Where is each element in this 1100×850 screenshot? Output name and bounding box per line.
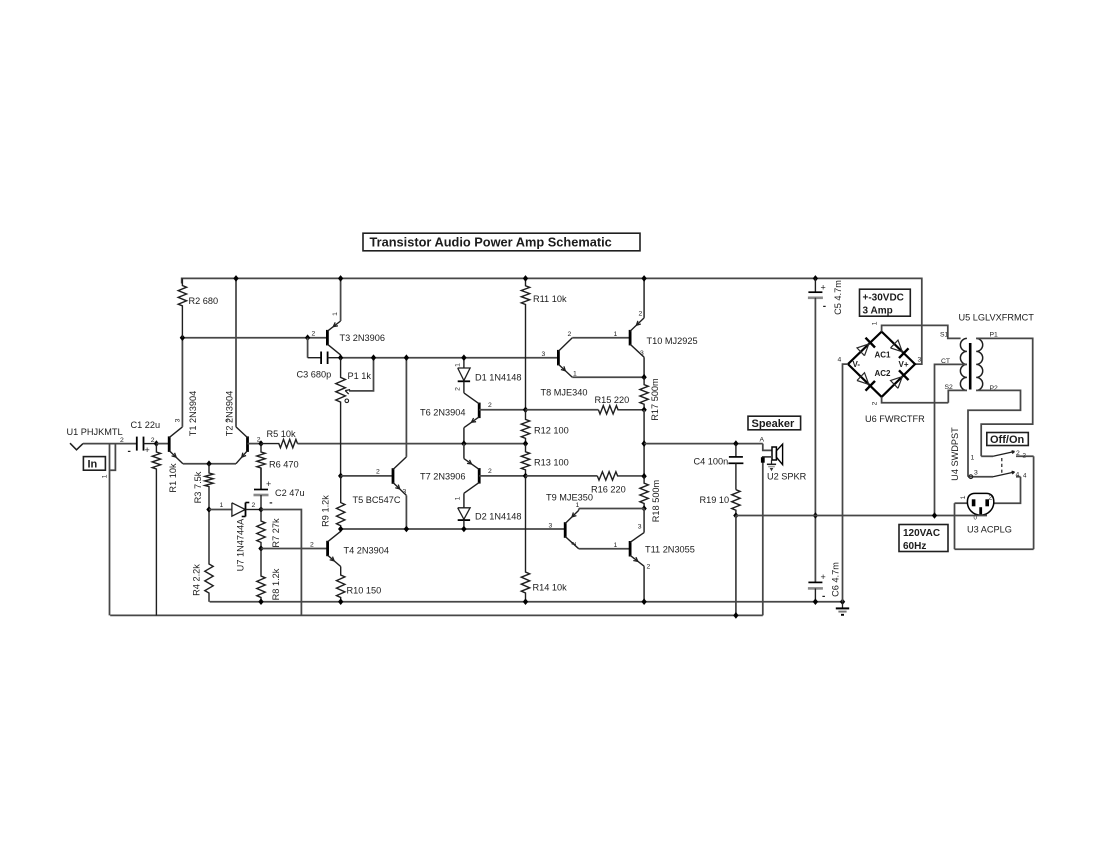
resistor R12 100 <box>521 410 529 444</box>
node T3 collector / C3 / P1 junction <box>338 354 343 361</box>
svg-text:4: 4 <box>1016 472 1020 479</box>
svg-text:R7 27k: R7 27k <box>271 518 281 548</box>
transistor T10 MJ2925 <box>629 330 632 346</box>
wire output column <box>643 410 645 476</box>
svg-text:R10 150: R10 150 <box>347 586 382 596</box>
svg-text:+: + <box>266 479 271 489</box>
resistor R13 100 <box>521 444 529 476</box>
svg-text:1: 1 <box>614 542 618 549</box>
svg-text:-: - <box>822 591 825 602</box>
zener diode U7 1N4744A <box>232 503 245 516</box>
label Off/On box <box>987 433 1029 446</box>
node CT at ground line <box>932 512 937 519</box>
node T2 collector at rail <box>233 275 238 282</box>
svg-text:U6 FWRCTFR: U6 FWRCTFR <box>865 414 925 424</box>
svg-text:Transistor Audio Power Amp Sch: Transistor Audio Power Amp Schematic <box>370 235 612 250</box>
svg-text:+: + <box>821 572 826 582</box>
svg-text:R4 2.2k: R4 2.2k <box>192 564 202 596</box>
node C5 at +rail <box>813 275 818 282</box>
svg-text:T4 2N3904: T4 2N3904 <box>344 546 389 556</box>
svg-text:60Hz: 60Hz <box>903 541 926 552</box>
wire plug pin1 stub <box>955 502 968 504</box>
node D2 at bias chain line <box>461 526 466 533</box>
svg-text:+-30VDC: +-30VDC <box>863 293 904 304</box>
wire ground bus C5- to C6+ <box>814 299 816 583</box>
node Speaker box <box>748 416 801 430</box>
svg-text:C4 100n: C4 100n <box>694 457 729 467</box>
plug ground blade <box>979 507 982 514</box>
node V- / ground symbol junction <box>840 598 845 605</box>
svg-text:1: 1 <box>614 331 618 338</box>
wire plug pin1 drop <box>954 503 956 549</box>
wire T6 emitter drop <box>463 428 465 444</box>
wire zener line <box>209 509 232 511</box>
wire switch pin2 to bottom frame <box>1033 456 1035 549</box>
wire T4 collector riser <box>340 529 342 531</box>
svg-text:2: 2 <box>252 502 256 509</box>
svg-text:T9 MJE350: T9 MJE350 <box>546 493 593 503</box>
plug U3 ACPLG body <box>967 493 993 515</box>
svg-text:A: A <box>760 437 765 444</box>
node P1 wiper tap <box>371 354 376 361</box>
wire T7 collector drop to D2 <box>463 493 465 508</box>
svg-text:R19 10: R19 10 <box>700 495 730 505</box>
wire center signal line (R5 to R12/R13 node) <box>298 443 526 445</box>
svg-text:2: 2 <box>571 541 578 545</box>
svg-text:C5 4.7m: C5 4.7m <box>833 280 843 315</box>
node output tap <box>641 440 646 447</box>
wire T8 emitter line <box>572 376 644 378</box>
transformer primary coil <box>976 338 983 390</box>
node T10 at rail <box>641 275 646 282</box>
svg-text:2: 2 <box>120 437 124 444</box>
resistor R11 10k <box>521 278 529 409</box>
svg-text:2: 2 <box>312 331 316 338</box>
wire T2 collector to +rail <box>235 278 237 427</box>
transistor T5 BC547C <box>392 468 395 484</box>
resistor R10 150 <box>337 567 345 602</box>
svg-text:R16 220: R16 220 <box>591 485 626 495</box>
wire T9 base line (bias chain bottom) <box>341 528 566 530</box>
node ground bus at supply ground line <box>813 512 818 519</box>
svg-text:3: 3 <box>175 418 182 422</box>
wire T10 collector drop <box>643 357 645 377</box>
resistor R4 2.2k <box>205 510 213 602</box>
resistor R16 220 <box>597 472 644 480</box>
svg-text:S1: S1 <box>940 332 949 339</box>
wire T3 base line from R2 bottom <box>182 337 327 339</box>
wire T3 emitter to rail <box>340 278 342 321</box>
node R7/R8/T4-base junction <box>258 545 263 552</box>
svg-text:C6 4.7m: C6 4.7m <box>831 562 841 597</box>
svg-text:2: 2 <box>1023 453 1027 460</box>
bridge diode top-right <box>891 340 903 352</box>
pin marker P1 wiper <box>345 399 349 403</box>
resistor R6 470 <box>257 444 265 490</box>
node T3 emitter at rail <box>338 275 343 282</box>
svg-text:1: 1 <box>576 502 580 509</box>
svg-text:4: 4 <box>838 357 842 364</box>
svg-text:In: In <box>88 459 98 471</box>
transistor T4 2N3904 <box>326 541 329 556</box>
svg-text:3: 3 <box>974 470 978 477</box>
wire T11 collector riser <box>643 509 645 533</box>
svg-text:T3 2N3906: T3 2N3906 <box>340 333 385 343</box>
node P1/R9 junction <box>338 473 343 480</box>
resistor R2 680 <box>178 278 186 337</box>
svg-text:Speaker: Speaker <box>752 418 796 430</box>
wire T1/T2 emitter line <box>183 463 236 465</box>
svg-text:R14 10k: R14 10k <box>533 583 568 593</box>
svg-text:R8 1.2k: R8 1.2k <box>271 568 281 600</box>
svg-text:R11 10k: R11 10k <box>533 294 567 304</box>
node T5 collector at VAS line <box>404 354 409 361</box>
ground symbol <box>842 602 844 609</box>
svg-text:R15 220: R15 220 <box>595 395 630 405</box>
svg-text:R3 7.5k: R3 7.5k <box>193 471 203 503</box>
title box <box>363 233 640 251</box>
svg-text:U3 ACPLG: U3 ACPLG <box>967 525 1012 535</box>
svg-text:R1 10k: R1 10k <box>168 463 178 493</box>
label +-30VDC box <box>860 289 911 316</box>
svg-text:4: 4 <box>1023 473 1027 480</box>
svg-text:2: 2 <box>1016 450 1020 457</box>
node C4/R19 at return line <box>733 612 738 619</box>
wire T3 collector drop <box>340 355 342 358</box>
resistor R7 27k <box>257 510 265 549</box>
node R3 tail junction <box>206 460 211 467</box>
capacitor C3 680p <box>307 338 309 358</box>
svg-text:1: 1 <box>220 502 224 509</box>
transistor T3 2N3906 <box>326 330 329 346</box>
svg-text:R9 1.2k: R9 1.2k <box>321 495 331 527</box>
node C3 tap on base line <box>305 334 310 341</box>
resistor R9 1.2k <box>337 476 345 529</box>
svg-text:2: 2 <box>488 402 492 409</box>
wire +30V top rail <box>182 278 922 364</box>
wire bridge pin1 to transformer S1 <box>882 325 961 338</box>
svg-text:T7 2N3906: T7 2N3906 <box>420 472 465 482</box>
svg-text:2: 2 <box>376 469 380 476</box>
bridge diode bottom-right <box>891 377 903 389</box>
resistor R17 500m <box>640 377 648 410</box>
svg-text:U1 PHJKMTL: U1 PHJKMTL <box>67 427 123 437</box>
plug pin 1 blade <box>972 499 976 506</box>
node zener/C2/R7 junction <box>258 506 263 513</box>
resistor R1 10k <box>152 444 160 616</box>
node C6 at -rail <box>813 598 818 605</box>
svg-text:R12 100: R12 100 <box>534 426 569 436</box>
switch U4 pole 2 <box>968 476 993 478</box>
wire input line <box>83 443 137 445</box>
capacitor C1 22u <box>136 443 138 445</box>
transistor T11 2N3055 <box>629 541 632 557</box>
svg-text:2: 2 <box>488 468 492 475</box>
svg-text:1: 1 <box>960 495 967 499</box>
svg-text:3: 3 <box>403 489 407 496</box>
wire bridge V- drop to -rail <box>843 364 849 602</box>
transformer U5 LGLVXFRMCT secondary coil <box>960 338 966 390</box>
node T5 emitter junction <box>404 526 409 533</box>
wire P1 to switch pin1 <box>976 338 1032 456</box>
svg-text:1: 1 <box>455 496 462 500</box>
svg-text:T8 MJE340: T8 MJE340 <box>541 388 588 398</box>
svg-text:P1: P1 <box>990 332 999 339</box>
capacitor C4 100n <box>735 444 737 457</box>
svg-text:T1 2N3904: T1 2N3904 <box>188 391 198 436</box>
svg-text:1: 1 <box>872 321 879 325</box>
svg-text:C3 680p: C3 680p <box>297 370 332 380</box>
svg-text:2: 2 <box>151 437 155 444</box>
wire output line to speaker <box>644 443 763 445</box>
svg-text:-: - <box>128 446 131 457</box>
wire R16 line <box>526 475 598 477</box>
resistor R5 10k <box>261 439 298 447</box>
diode D2 1N4148 <box>463 507 465 509</box>
svg-text:AC2: AC2 <box>875 369 892 378</box>
transistor T9 MJE350 <box>564 522 567 538</box>
node R16/R18 junction <box>641 473 646 480</box>
bridge diode top-left <box>857 344 869 356</box>
node R11 at rail <box>523 275 528 282</box>
wire supply ground line <box>736 515 987 517</box>
svg-text:R17 500m: R17 500m <box>650 378 660 421</box>
svg-text:T6 2N3904: T6 2N3904 <box>420 408 465 418</box>
svg-text:T2 2N3904: T2 2N3904 <box>225 391 235 436</box>
wire speaker return <box>763 457 772 616</box>
wire P1 wiper return <box>349 358 374 391</box>
svg-text:-: - <box>823 301 826 312</box>
resistor R18 500m <box>640 476 648 508</box>
node R11/R12/T6/R15 junction <box>523 407 528 414</box>
wire R15 line <box>526 409 599 411</box>
transistor T8 MJE340 <box>557 350 560 366</box>
transistor T6 2N3904 <box>478 403 481 419</box>
svg-text:120VAC: 120VAC <box>903 528 940 539</box>
diode D1 1N4148 <box>463 358 465 368</box>
node R15/R17 junction <box>641 407 646 414</box>
svg-text:3 Amp: 3 Amp <box>863 306 893 317</box>
wire T8 collector to T10 base <box>572 337 630 339</box>
wire T6 base line <box>479 409 525 411</box>
switch U4 SWDPST pole 1 <box>981 455 993 457</box>
transistor T2 2N3904 <box>246 436 249 452</box>
svg-text:T10 MJ2925: T10 MJ2925 <box>647 336 698 346</box>
bridge rectifier U6 FWRCTFR body <box>848 332 915 397</box>
transistor T7 2N3906 <box>478 468 481 484</box>
svg-text:3: 3 <box>542 351 546 358</box>
svg-text:+: + <box>821 283 826 293</box>
node R12/R13 at center line <box>523 440 528 447</box>
svg-text:3: 3 <box>225 418 232 422</box>
svg-text:1: 1 <box>455 363 462 367</box>
node T11 emitter at -rail <box>641 598 646 605</box>
svg-text:R2 680: R2 680 <box>189 296 219 306</box>
svg-text:D2 1N4148: D2 1N4148 <box>475 512 521 522</box>
node R19 at ground line <box>733 512 738 519</box>
svg-text:C2 47u: C2 47u <box>275 488 305 498</box>
connector U1 PHJKMTL input jack <box>70 443 83 450</box>
svg-text:2: 2 <box>310 542 314 549</box>
svg-text:R5 10k: R5 10k <box>267 429 297 439</box>
wire ground return line <box>110 614 763 616</box>
node C1/R1/T1 junction <box>154 440 159 447</box>
wire T11 emitter drop <box>643 566 645 602</box>
wire T5 base line <box>341 475 393 477</box>
svg-text:AC1: AC1 <box>875 351 892 360</box>
node T2 base/R5/R6 junction <box>258 440 263 447</box>
wire T1 collector to R2 bottom node <box>181 338 183 427</box>
node R10 at -rail <box>338 598 343 605</box>
node In box <box>83 457 105 471</box>
svg-text:3: 3 <box>918 357 922 364</box>
node R18/T9/T11 junction <box>641 505 646 512</box>
resistor R15 220 <box>598 406 644 414</box>
transistor T1 2N3904 <box>168 436 171 452</box>
wire S2 exit <box>948 390 967 402</box>
wire P2 to switch pin3 <box>968 390 1021 476</box>
svg-text:Off/On: Off/On <box>990 434 1024 446</box>
wire VAS line (T3 collector to T8 base) <box>341 357 559 359</box>
svg-text:R13 100: R13 100 <box>534 458 569 468</box>
wire T9 emitter stub <box>578 509 580 511</box>
wire T9 emitter line <box>579 508 644 510</box>
potentiometer P1 1k <box>336 358 346 476</box>
wire T5 collector riser to VAS line <box>405 358 407 457</box>
wire T10 emitter to rail <box>643 278 645 318</box>
wire CT tap <box>935 364 967 515</box>
switch gang dashed link <box>1001 458 1003 474</box>
svg-text:U7 1N4744A: U7 1N4744A <box>236 518 246 571</box>
svg-text:P1 1k: P1 1k <box>348 371 372 381</box>
svg-text:R6 470: R6 470 <box>269 460 299 470</box>
wire T5 emitter drop <box>405 495 407 529</box>
speaker polarity mark <box>771 460 773 464</box>
wire C4/R19 drop to return line <box>735 516 737 616</box>
wire T7 emitter riser <box>463 444 465 459</box>
node R14 at -rail <box>523 598 528 605</box>
node T6/T7 emitters at center line <box>461 440 466 447</box>
bridge diode bottom-left <box>857 373 869 385</box>
node R2/T1/T3-base junction <box>180 334 185 341</box>
svg-text:1: 1 <box>332 312 339 316</box>
svg-text:2: 2 <box>872 401 879 405</box>
speaker U2 SPKR <box>772 447 776 460</box>
svg-text:-: - <box>269 498 272 509</box>
resistor R14 10k <box>521 476 529 602</box>
node C4 tap on output line <box>733 440 738 447</box>
wire bottom frame <box>955 548 1034 550</box>
svg-text:R18 500m: R18 500m <box>651 479 661 522</box>
resistor R8 1.2k <box>257 549 265 602</box>
svg-text:1: 1 <box>102 474 109 478</box>
svg-text:T11 2N3055: T11 2N3055 <box>645 545 695 555</box>
svg-text:U2 SPKR: U2 SPKR <box>767 472 807 482</box>
wire T2 base stub <box>248 443 262 445</box>
wire bridge pin2 to transformer S2 <box>882 397 949 403</box>
node R8 at -rail <box>258 598 263 605</box>
capacitor C5 4.7m <box>814 278 816 292</box>
wire speaker feed <box>763 444 772 451</box>
svg-text:1: 1 <box>971 455 975 462</box>
wire input connector pin 2 stub <box>110 444 115 471</box>
svg-text:3: 3 <box>549 523 553 530</box>
svg-text:V-: V- <box>853 360 861 369</box>
transformer core <box>969 343 972 390</box>
capacitor C6 4.7m <box>814 581 816 583</box>
svg-text:U4 SWDPST: U4 SWDPST <box>950 427 960 481</box>
wire zener return to ground line <box>261 510 301 616</box>
node R3/R4/zener junction <box>206 506 211 513</box>
resistor R3 7.5k <box>205 464 213 510</box>
node D1 at VAS line <box>461 354 466 361</box>
svg-text:2: 2 <box>989 495 993 502</box>
wire plug pin2 to switch pin4 <box>994 477 1021 504</box>
wire T4 base line <box>261 548 328 550</box>
svg-text:2: 2 <box>568 331 572 338</box>
wire T9 collector to T11 base <box>579 548 630 550</box>
capacitor C2 47u <box>260 468 262 490</box>
node R9/T4 junction <box>338 526 343 533</box>
svg-text:2: 2 <box>639 311 643 318</box>
wire -30V bottom rail <box>210 601 843 603</box>
svg-text:T5 BC547C: T5 BC547C <box>353 495 401 505</box>
svg-text:U5 LGLVXFRMCT: U5 LGLVXFRMCT <box>959 313 1035 323</box>
node T10/T8/R17 junction <box>641 374 646 381</box>
svg-text:3: 3 <box>640 350 644 357</box>
svg-text:D1 1N4148: D1 1N4148 <box>475 373 521 383</box>
svg-text:2: 2 <box>647 564 651 571</box>
svg-text:+: + <box>145 445 150 455</box>
wire input shield drop <box>109 444 111 616</box>
resistor R19 10 <box>732 490 740 516</box>
svg-text:3: 3 <box>638 524 642 531</box>
wire T7 base line <box>479 475 525 477</box>
svg-text:V+: V+ <box>899 360 909 369</box>
svg-text:2: 2 <box>455 387 462 391</box>
plug pin 2 blade <box>985 499 989 506</box>
label 120VAC box <box>899 525 948 552</box>
svg-text:C1 22u: C1 22u <box>131 420 161 430</box>
node R13/R14/T7/R16 junction <box>523 473 528 480</box>
